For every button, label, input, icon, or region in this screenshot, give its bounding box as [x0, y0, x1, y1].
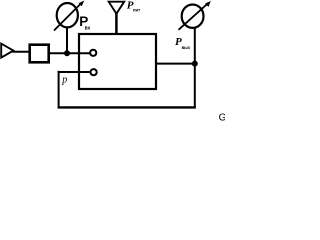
wire: relay output — [156, 63, 195, 65]
throttle box — [30, 45, 49, 63]
wire: right riser — [194, 27, 196, 109]
svg-text:G: G — [219, 113, 225, 124]
input nozzle (upper port) — [90, 50, 96, 56]
wire: bottom bus — [58, 106, 196, 108]
label P_vyx — [175, 36, 191, 50]
wire: gauge P_vx stem — [66, 26, 68, 54]
wire: throttle to input nozzle — [48, 52, 90, 54]
wire: feedback riser (left) — [58, 71, 60, 108]
svg-text:вых: вых — [182, 45, 191, 50]
supply funnel — [109, 2, 125, 14]
relay block (main unit) — [79, 34, 156, 89]
svg-text:вх: вх — [85, 25, 91, 31]
node: output junction — [192, 61, 198, 67]
input nozzle (lower port) — [91, 69, 97, 75]
wire: triangle to throttle — [13, 51, 31, 53]
node: input junction — [64, 50, 70, 56]
pressure gauge P_vyx — [179, 1, 211, 30]
svg-text:p: p — [61, 75, 67, 86]
pressure gauge P_vx — [54, 1, 84, 31]
label G — [219, 113, 227, 124]
svg-text:пит: пит — [133, 7, 140, 12]
label rho — [61, 75, 67, 86]
label P_vx — [79, 14, 90, 31]
label P_pit — [127, 0, 140, 12]
wire: funnel to relay top — [115, 13, 118, 35]
input triangle (supply amplifier) — [1, 44, 13, 58]
wire: feedback corner to lower nozzle — [58, 71, 91, 73]
